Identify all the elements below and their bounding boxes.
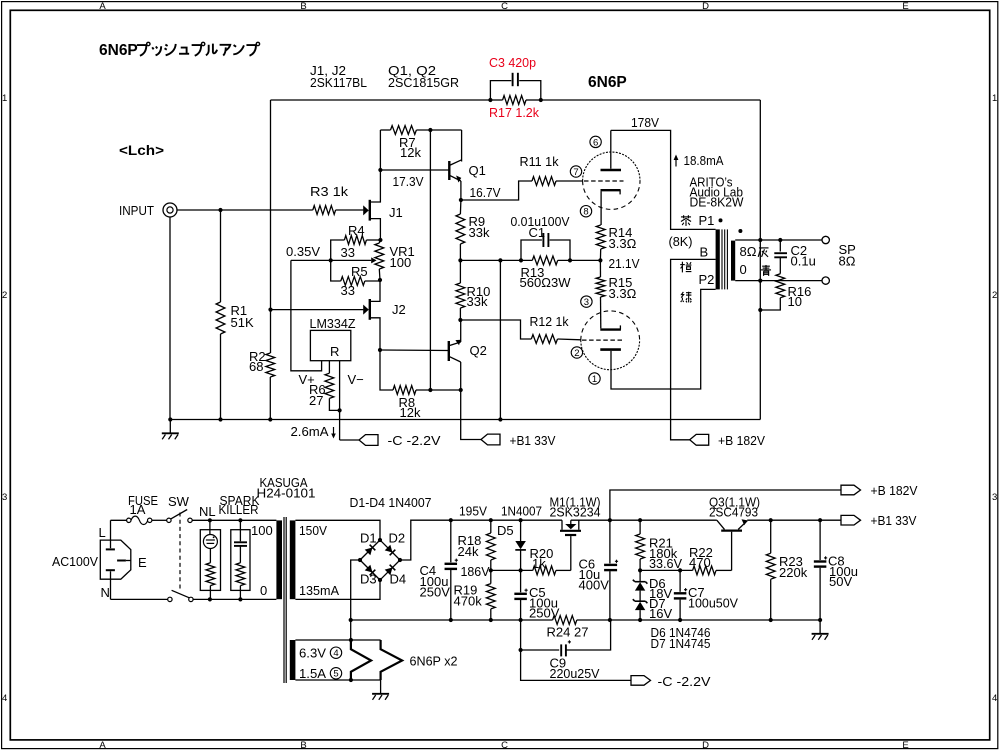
33.6V wire xyxy=(640,569,693,571)
heater bottom tap wire xyxy=(295,679,380,681)
net tail +B 182V amp xyxy=(690,434,709,445)
svg-text:N: N xyxy=(101,585,110,600)
svg-text:51K: 51K xyxy=(231,315,254,330)
T1 primary phase dot xyxy=(719,218,723,222)
output transformer T1 core laminations xyxy=(721,229,723,289)
svg-text:NL: NL xyxy=(199,504,216,519)
junction bridge neg/bottom rail xyxy=(349,618,353,622)
junction R1/ground rail xyxy=(218,417,222,421)
speaker terminal top xyxy=(822,236,829,243)
svg-text:470k: 470k xyxy=(454,594,483,609)
cathode rail right part xyxy=(558,259,601,261)
capacitor C1 0.01u xyxy=(521,240,542,260)
switch gang dashed link xyxy=(179,513,181,590)
net tail +B1 33V psu xyxy=(841,515,861,525)
tube V1 plate pin6 xyxy=(601,169,622,172)
wire Q1 emitter to 16.7V node xyxy=(460,181,462,200)
AC neutral wire xyxy=(111,598,168,600)
junction bridge bottom xyxy=(378,578,382,582)
svg-text:2SC4793: 2SC4793 xyxy=(709,505,758,520)
capacitor C3 420p xyxy=(490,81,511,100)
junction spark killer bottom xyxy=(238,597,242,601)
resistor R23 220k xyxy=(766,553,775,579)
wire switch to transformer top xyxy=(192,519,276,521)
junction 33.6V node xyxy=(638,568,642,572)
resistor R4 33 xyxy=(344,236,366,245)
resistor R3 1k xyxy=(313,206,336,215)
svg-text:R4: R4 xyxy=(348,223,365,238)
ground symbol PSU right xyxy=(819,620,821,634)
svg-text:A: A xyxy=(99,1,106,12)
junction secondary bottom/ground drop xyxy=(758,279,762,283)
wire R12 to lower tube grid pin2 xyxy=(558,338,582,341)
svg-text:3.3Ω: 3.3Ω xyxy=(609,286,637,301)
svg-text:+B 182V: +B 182V xyxy=(718,433,765,448)
label blue wire xyxy=(765,265,767,270)
HV secondary top wire to bridge xyxy=(295,520,380,540)
svg-text:C: C xyxy=(501,1,508,12)
svg-text:33k: 33k xyxy=(469,225,490,240)
junction C1 left xyxy=(519,258,523,262)
svg-text:D2: D2 xyxy=(389,531,406,546)
svg-text:R5: R5 xyxy=(351,264,368,279)
junction J2 source/Q2 base/R8 xyxy=(378,348,382,352)
svg-text:B: B xyxy=(700,245,709,260)
svg-text:10: 10 xyxy=(788,294,802,309)
186V wire xyxy=(491,569,533,571)
svg-text:5: 5 xyxy=(333,669,338,680)
PSU bottom rail right xyxy=(577,619,820,621)
svg-text:33: 33 xyxy=(341,283,355,298)
fuse FUSE 1A xyxy=(127,518,131,522)
plug pin N xyxy=(106,569,115,571)
svg-text:R12 1k: R12 1k xyxy=(530,314,569,329)
ground symbol heater xyxy=(380,680,382,694)
svg-text:1N4007: 1N4007 xyxy=(501,504,542,519)
diode D3 xyxy=(360,560,380,580)
zener D7 1N4745 16V xyxy=(635,600,646,602)
tube V2 grid pin2 dashed xyxy=(582,339,623,341)
potentiometer VR1 100 xyxy=(375,243,384,269)
svg-text:+B1 33V: +B1 33V xyxy=(871,513,917,528)
resistor R19 470k xyxy=(486,584,495,609)
svg-text:SW: SW xyxy=(168,494,190,509)
wire secondary zero to ground rail xyxy=(759,240,761,281)
junction 16.7V node xyxy=(459,198,463,202)
capacitor C9 220u 25V bypass xyxy=(520,620,522,650)
svg-text:150V: 150V xyxy=(299,523,327,538)
junction VR1 bottom/J2 drain xyxy=(378,278,382,282)
pin label 7 circled xyxy=(570,166,581,177)
svg-text:1: 1 xyxy=(2,93,7,104)
junction C5 bottom xyxy=(519,618,523,622)
junction bridge right xyxy=(398,558,402,562)
svg-text:2SK117BL: 2SK117BL xyxy=(310,75,367,90)
label gray wire xyxy=(759,247,769,249)
svg-text:17.3V: 17.3V xyxy=(393,174,424,189)
AC plug connector xyxy=(110,520,112,548)
wire 0.35V node to VR1 wiper xyxy=(331,259,372,261)
junction C7 top xyxy=(678,568,682,572)
capacitor C5 100u 250V xyxy=(520,570,522,592)
svg-text:3: 3 xyxy=(584,297,589,308)
svg-text:8Ω: 8Ω xyxy=(740,244,757,259)
grid row labels left xyxy=(2,93,7,704)
cathode rail 21.1V left part xyxy=(460,259,532,261)
resistor R15 3.3ohm xyxy=(596,277,605,297)
svg-text:R11 1k: R11 1k xyxy=(520,154,559,169)
svg-text:1: 1 xyxy=(992,93,997,104)
pin label 3 circled xyxy=(581,296,592,307)
svg-text:16V: 16V xyxy=(649,606,672,621)
svg-text:3: 3 xyxy=(2,492,7,503)
svg-text:LM334Z: LM334Z xyxy=(310,316,356,331)
net tail +B1 33V amp xyxy=(481,434,500,445)
svg-text:220k: 220k xyxy=(779,565,808,580)
wire +B 182V output xyxy=(610,490,842,520)
capacitor C2 0.1u xyxy=(779,240,781,252)
svg-text:12k: 12k xyxy=(400,405,421,420)
svg-text:250V: 250V xyxy=(420,585,451,600)
wire switch to transformer bottom xyxy=(193,598,276,600)
junction R23 top xyxy=(769,518,773,522)
svg-text:8: 8 xyxy=(583,207,588,218)
wire R10 bottom to R12 xyxy=(460,320,531,339)
ground symbol amp left xyxy=(169,420,171,434)
T1 secondary phase dot xyxy=(738,229,742,233)
svg-text:12k: 12k xyxy=(400,145,421,160)
svg-text:B: B xyxy=(300,740,306,750)
plug pin L xyxy=(106,548,115,550)
svg-text:7: 7 xyxy=(573,167,578,178)
capacitor C4 100u 250V xyxy=(450,520,452,562)
svg-text:0.1u: 0.1u xyxy=(791,254,816,269)
heater connector inner chevron xyxy=(351,640,371,680)
resistor R2 68 xyxy=(266,353,275,377)
capacitor C7 100u 50V xyxy=(679,570,681,591)
svg-text:E: E xyxy=(902,740,908,750)
NFB left edge down to J2 gate xyxy=(270,100,272,310)
junction ground drop/ground rail xyxy=(498,417,502,421)
junction C6 bottom xyxy=(608,618,612,622)
svg-text:2: 2 xyxy=(2,290,7,301)
junction D5 bottom C5 top xyxy=(519,568,523,572)
pin label 6 circled xyxy=(590,136,601,147)
junction 0.35V node xyxy=(329,258,333,262)
ground rail amp xyxy=(170,419,552,421)
svg-text:68: 68 xyxy=(249,359,263,374)
NFB line top box xyxy=(271,99,491,101)
svg-text:D4: D4 xyxy=(390,572,407,587)
resistor R22 470 xyxy=(693,566,716,575)
svg-text:2SK3234: 2SK3234 xyxy=(550,505,601,520)
tube V2 cathode pin3 xyxy=(600,328,621,330)
svg-text:KILLER: KILLER xyxy=(219,502,259,517)
svg-text:6.3V: 6.3V xyxy=(299,646,326,661)
net tail +B 182V psu xyxy=(841,485,861,495)
LM334 V- lead down to -C xyxy=(339,361,341,440)
junction C7 bottom xyxy=(678,618,682,622)
wire fuse to switch xyxy=(152,519,167,521)
svg-text:0: 0 xyxy=(260,583,267,598)
svg-text:1k: 1k xyxy=(532,556,546,571)
tube V2 plate pin1 xyxy=(600,348,621,351)
svg-text:H24-0101: H24-0101 xyxy=(257,486,316,501)
resistor R1 51K xyxy=(216,302,225,334)
junction C1 right xyxy=(568,258,572,262)
junction D5 top xyxy=(519,518,523,522)
svg-text:50V: 50V xyxy=(829,574,852,589)
junction C3/R17 left xyxy=(488,98,492,102)
svg-text:(8K): (8K) xyxy=(669,234,693,249)
svg-text:33.6V: 33.6V xyxy=(649,556,682,571)
svg-text:220u25V: 220u25V xyxy=(550,666,600,681)
wire Q2 collector to +B1 tail xyxy=(461,390,481,440)
resistor R10 33k xyxy=(456,283,465,308)
junction R8/Q2 collector xyxy=(459,388,463,392)
junction C3/R17 right xyxy=(539,98,543,102)
power transformer core xyxy=(283,517,285,683)
svg-text:1.5A: 1.5A xyxy=(299,666,326,681)
svg-text:A: A xyxy=(99,740,106,750)
power transformer primary winding bar xyxy=(276,520,282,599)
junction bridge left xyxy=(358,558,362,562)
output transformer T1 primary winding xyxy=(716,229,720,289)
junction C8 top xyxy=(818,518,822,522)
svg-text:C: C xyxy=(501,740,508,750)
transistor J2 2SK117 xyxy=(271,309,364,311)
resistor R12 1k xyxy=(531,335,557,344)
tube V1 upper triode 6N6P envelope xyxy=(583,152,640,181)
svg-text:C1: C1 xyxy=(529,225,546,240)
svg-text:178V: 178V xyxy=(631,115,659,130)
svg-text:24k: 24k xyxy=(458,544,479,559)
transistor J1 2SK117 xyxy=(363,205,369,215)
pin label 1 circled xyxy=(589,373,600,384)
svg-text:186V: 186V xyxy=(461,564,490,579)
Q3 emitter rail to +B1 xyxy=(747,519,841,521)
svg-text:J2: J2 xyxy=(392,302,406,317)
junction R21 top xyxy=(638,518,642,522)
wire R7 right to Q1 collector xyxy=(461,130,463,162)
junction heater top/neg rail drop xyxy=(349,638,353,642)
svg-text:4: 4 xyxy=(992,693,997,704)
svg-text:400V: 400V xyxy=(579,578,610,593)
bootstrap wire R7 junction down to R8 xyxy=(429,130,431,390)
wire rail to ground rail xyxy=(499,260,501,419)
zener D6 1N4746 18V xyxy=(635,581,646,583)
transistor Q2 2SC1815 xyxy=(448,341,450,361)
svg-text:8Ω: 8Ω xyxy=(839,254,856,269)
svg-text:DE-8K2W: DE-8K2W xyxy=(690,195,745,210)
svg-text:21.1V: 21.1V xyxy=(609,256,640,271)
junction C2 top xyxy=(778,238,782,242)
wire 0.35V to LM334 V+ xyxy=(291,260,322,370)
switch SW bottom pole xyxy=(168,597,172,601)
resistor R9 33k xyxy=(456,214,465,244)
resistor R5 33 xyxy=(341,277,365,286)
svg-text:R24 27: R24 27 xyxy=(547,625,589,640)
net tail -C -2.2V psu xyxy=(521,650,632,680)
svg-text:R17 1.2k: R17 1.2k xyxy=(489,105,539,120)
svg-text:D: D xyxy=(702,740,709,750)
svg-text:470: 470 xyxy=(689,555,711,570)
svg-text:4: 4 xyxy=(2,693,7,704)
capacitor C8 100u 50V xyxy=(819,520,821,560)
plug pin E xyxy=(117,560,126,562)
tube V2 lower triode 6N6P envelope xyxy=(581,311,640,340)
wire V1 plate to transformer P1 xyxy=(611,130,716,229)
input jack INPUT xyxy=(163,203,177,217)
junction bridge top xyxy=(378,538,382,542)
wire input jack to ground xyxy=(169,217,171,419)
label orange tap xyxy=(681,262,683,273)
heater winding 6.3V bar xyxy=(290,640,296,680)
bridge positive wire to 195V rail xyxy=(400,520,562,560)
neon lamp NL xyxy=(209,520,211,534)
svg-text:560Ω3W: 560Ω3W xyxy=(520,275,572,290)
svg-text:16.7V: 16.7V xyxy=(470,185,501,200)
junction jack/ground rail xyxy=(168,417,172,421)
label green tap xyxy=(681,292,683,298)
junction heater bottom/jumper xyxy=(349,678,353,682)
M1 output rail xyxy=(571,519,717,521)
tube V1 grid pin7 dashed xyxy=(584,180,624,182)
svg-text:J1: J1 xyxy=(389,205,403,220)
svg-text:100u50V: 100u50V xyxy=(688,596,738,611)
label brown P1 tap xyxy=(681,216,691,218)
T1 secondary top tap wire xyxy=(735,239,822,241)
resistor R17 1.2k xyxy=(503,96,526,105)
svg-text:2.6mA: 2.6mA xyxy=(291,424,329,439)
resistor R24 27 in rail xyxy=(553,616,577,625)
heater connector outer chevron xyxy=(381,640,403,680)
junction R2/ground rail xyxy=(268,417,272,421)
junction NL bottom xyxy=(208,597,212,601)
svg-text:C3 420p: C3 420p xyxy=(489,55,536,70)
svg-text:27: 27 xyxy=(309,393,323,408)
net tail -C -2.2V amp xyxy=(340,439,359,441)
resistor R14 3.3ohm xyxy=(596,225,605,249)
svg-text:33: 33 xyxy=(341,245,355,260)
junction J1 source/R4/VR1 top xyxy=(378,238,382,242)
capacitor C6 10u 400V xyxy=(609,520,611,563)
junction C4 top xyxy=(449,518,453,522)
wire J2 source to Q2 base xyxy=(380,349,449,352)
svg-text:D1-D4 1N4007: D1-D4 1N4007 xyxy=(350,495,432,510)
svg-text:P2: P2 xyxy=(699,272,715,287)
resistor R21 180k xyxy=(636,534,645,559)
tube V1 cathode pin8 xyxy=(601,189,621,191)
resistor R8 12k xyxy=(393,386,416,395)
junction NL top xyxy=(208,518,212,522)
junction NFB/secondary top xyxy=(758,238,762,242)
pin label 8 circled xyxy=(580,206,591,217)
T1 secondary bottom tap wire xyxy=(735,280,822,282)
switch SW top pole xyxy=(167,518,171,522)
diode D4 xyxy=(380,560,400,580)
svg-text:+B1 33V: +B1 33V xyxy=(510,433,556,448)
svg-text:0: 0 xyxy=(740,262,747,277)
NFB drop from top box to secondary xyxy=(759,100,761,240)
svg-text:-C -2.2V: -C -2.2V xyxy=(388,433,441,448)
svg-text:4: 4 xyxy=(333,648,338,659)
label current 18.8mA xyxy=(675,156,677,167)
svg-text:6N6P x2: 6N6P x2 xyxy=(410,654,458,669)
resistor R7 12k xyxy=(391,126,417,135)
heater top tap wire xyxy=(295,639,380,641)
junction J1 drain/Q1 base xyxy=(378,168,382,172)
junction zener bottom xyxy=(638,618,642,622)
svg-text:INPUT: INPUT xyxy=(119,203,154,218)
junction R7/bootstrap xyxy=(428,128,432,132)
junction +B 182V takeoff xyxy=(608,518,612,522)
junction spark killer top xyxy=(238,518,242,522)
bridge negative wire to bottom rail xyxy=(351,560,360,640)
wire V2 plate to transformer P2 xyxy=(611,289,716,389)
svg-text:33k: 33k xyxy=(467,294,488,309)
AC live wire to fuse xyxy=(111,519,127,521)
svg-text:<Lch>: <Lch> xyxy=(119,143,164,158)
wire R11 to tube grid pin7 xyxy=(556,180,583,182)
svg-text:P1: P1 xyxy=(699,213,715,228)
svg-text:1: 1 xyxy=(592,374,597,385)
HV secondary bottom wire to bridge xyxy=(295,580,380,599)
grid column labels bottom xyxy=(99,740,908,750)
output transformer T1 secondary winding xyxy=(731,241,735,281)
grid row labels right xyxy=(992,93,997,704)
svg-text:135mA: 135mA xyxy=(299,583,339,598)
PSU bottom rail left xyxy=(351,619,553,621)
svg-text:D7 1N4745: D7 1N4745 xyxy=(651,636,711,651)
resistor R6 27 xyxy=(325,373,334,398)
junction C8 bottom xyxy=(818,618,822,622)
svg-text:100: 100 xyxy=(251,523,273,538)
svg-text:6N6P: 6N6P xyxy=(99,42,138,59)
junction R23 bottom xyxy=(769,618,773,622)
junction input/R1 xyxy=(218,208,222,212)
junction R10/Q2 emitter/R12 xyxy=(458,318,462,322)
resistor R16 10 xyxy=(776,274,785,298)
svg-text:2: 2 xyxy=(992,290,997,301)
LM334 R pin lead to R6 xyxy=(328,361,330,374)
wire J2 source to R8 xyxy=(380,350,393,390)
svg-text:R: R xyxy=(330,344,339,359)
svg-text:Q2: Q2 xyxy=(470,343,487,358)
junction cathode node 21.1V xyxy=(598,258,602,262)
svg-text:B: B xyxy=(300,1,306,12)
svg-text:D5: D5 xyxy=(497,523,514,538)
junction NFB/J2 gate/R2 xyxy=(268,308,272,312)
IC LM334Z current source xyxy=(310,330,350,360)
svg-text:+B 182V: +B 182V xyxy=(871,483,918,498)
svg-text:3: 3 xyxy=(992,492,997,503)
transistor Q1 2SC1815 xyxy=(380,169,449,171)
resistor R18 24k xyxy=(486,533,495,560)
resistor R11 1k xyxy=(532,177,556,186)
svg-text:L: L xyxy=(99,525,106,540)
svg-text:3.3Ω: 3.3Ω xyxy=(609,236,637,251)
diode D1 xyxy=(360,540,380,560)
junction R6/V- xyxy=(338,408,342,412)
grid column labels top xyxy=(99,1,908,12)
svg-text:D: D xyxy=(702,1,709,12)
junction R18 top xyxy=(489,518,493,522)
svg-text:6: 6 xyxy=(593,137,598,148)
junction R9/R10 on cathode rail xyxy=(458,258,462,262)
svg-text:Q1: Q1 xyxy=(469,163,486,178)
svg-text:2: 2 xyxy=(574,348,579,359)
